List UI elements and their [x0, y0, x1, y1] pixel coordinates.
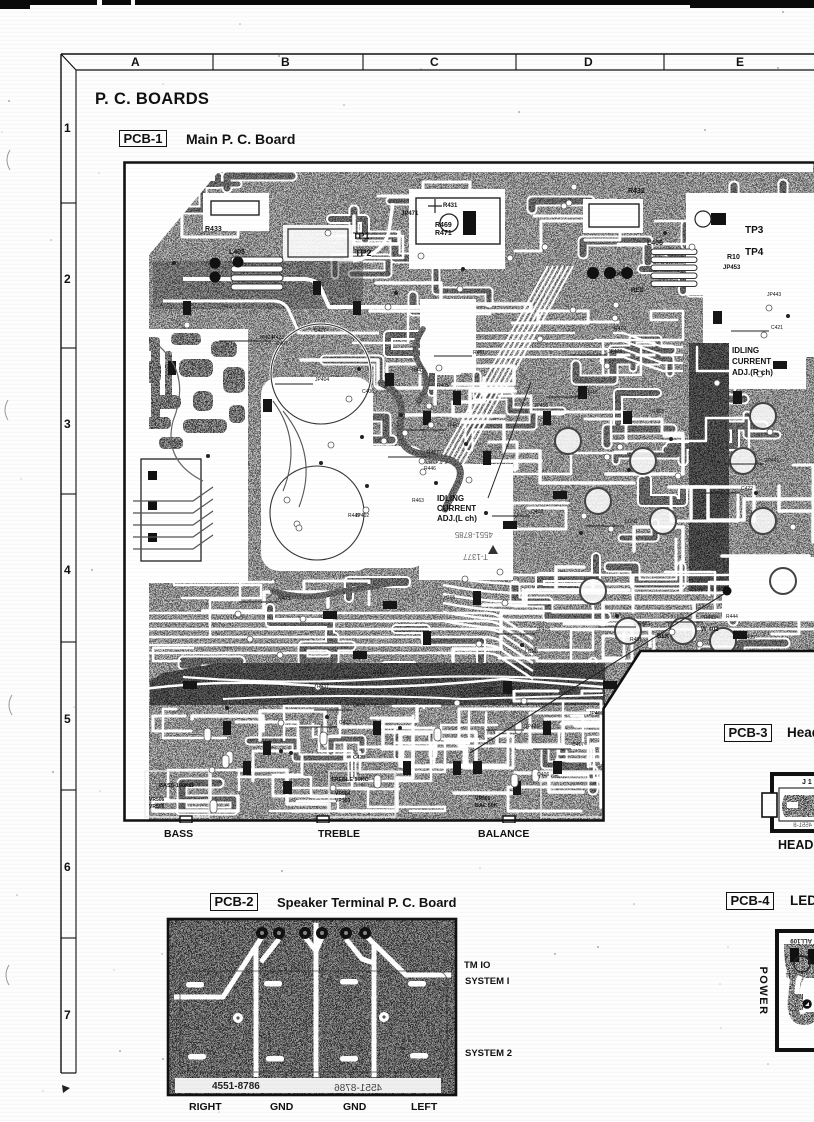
- svg-text:R471: R471: [435, 230, 452, 237]
- svg-text:TP4: TP4: [745, 247, 764, 258]
- trace channel left vertical: [254, 945, 259, 1077]
- white zone mid column: [420, 299, 476, 373]
- channels through dark band: [143, 679, 603, 689]
- svg-text:IDLING: IDLING: [437, 494, 464, 503]
- svg-text:JP404: JP404: [315, 377, 329, 383]
- svg-text:C421: C421: [771, 325, 783, 331]
- frame header bottom line: [76, 69, 814, 71]
- via dots: [206, 454, 210, 458]
- row number 4: [64, 563, 71, 577]
- svg-text:ALL109: ALL109: [790, 937, 812, 943]
- thin traces left white zone: [133, 487, 213, 501]
- bottom white strip: [175, 1078, 441, 1093]
- frame top line: [61, 53, 814, 55]
- svg-text:R432: R432: [628, 188, 645, 195]
- capacitor circle: [794, 956, 810, 972]
- LED dark circle: [802, 999, 812, 1009]
- frame left inner line: [75, 70, 77, 1073]
- top band channel 3: [353, 203, 393, 261]
- top band channel 2: [163, 301, 379, 333]
- label HEADP: [778, 838, 814, 852]
- svg-text:TP2: TP2: [355, 248, 372, 258]
- connector tab BASS: [180, 816, 192, 823]
- transistor circles: [555, 428, 581, 454]
- wire traces (white channels): [182, 201, 238, 237]
- component bodies: [263, 399, 272, 412]
- svg-text:C423: C423: [339, 720, 351, 726]
- row number 6: [64, 860, 71, 874]
- svg-text:T-1377: T-1377: [463, 552, 488, 561]
- PCB-3 title: [787, 725, 814, 740]
- PCB-1 copper pour: [124, 162, 814, 822]
- pot outline BASS: [145, 771, 209, 817]
- svg-text:LCN7: LCN7: [625, 519, 638, 525]
- svg-text:R417: R417: [427, 450, 439, 456]
- svg-text:R431: R431: [443, 203, 458, 209]
- svg-text:R446: R446: [424, 466, 436, 472]
- white zone center circles: [261, 377, 373, 571]
- left margin re-cover: [125, 163, 149, 820]
- gray island: [793, 994, 803, 1010]
- LED board copper blob: [784, 944, 814, 1025]
- top black bar: [0, 0, 814, 5]
- mirrored stamp pcb3: [793, 823, 812, 829]
- svg-text:JP443: JP443: [767, 292, 781, 298]
- row number 1: [64, 121, 71, 135]
- mirrored stamp 4551-8785: [454, 530, 493, 539]
- pot outline BALANCE: [541, 771, 603, 817]
- svg-text:R479: R479: [614, 326, 626, 332]
- svg-text:4551-8786: 4551-8786: [334, 1083, 382, 1094]
- grid letter D: [584, 55, 593, 69]
- corner mark bottom-left: [62, 1085, 70, 1093]
- terminal screws: [256, 927, 268, 939]
- label LEFT: [411, 1101, 437, 1113]
- svg-text:R403: R403: [278, 596, 290, 602]
- white wedge top-left: [126, 164, 225, 255]
- PCB-3 board body: [772, 774, 814, 831]
- white zone comp box B2: [203, 193, 269, 231]
- grid letter B: [281, 55, 290, 69]
- grid letter A: [131, 55, 140, 69]
- dark trace snake left: [273, 583, 393, 597]
- LCN black dots: [210, 258, 221, 269]
- svg-text:4551-8: 4551-8: [793, 823, 812, 829]
- trace bundle top-mid: [423, 333, 683, 347]
- connector tab TREBLE: [317, 816, 329, 823]
- pot outline TREBLE: [329, 771, 395, 817]
- dark snake traces: [163, 176, 810, 811]
- svg-text:LCN8: LCN8: [525, 649, 538, 655]
- frame corner bevel: [61, 54, 76, 70]
- white zone left-middle: [126, 329, 248, 583]
- connector tab: [762, 793, 777, 817]
- label TREBLE: [318, 828, 360, 840]
- label SYSTEM I: [465, 976, 509, 987]
- dark patch top-left: [153, 261, 363, 309]
- svg-text:VR501: VR501: [475, 796, 491, 802]
- white zone center lower: [263, 446, 425, 568]
- white zone D: [409, 189, 505, 269]
- right edge component: [808, 949, 814, 964]
- label RIGHT: [189, 1101, 222, 1113]
- svg-text:CURRENT: CURRENT: [732, 357, 771, 366]
- PCB-4 label box: [726, 892, 774, 910]
- svg-text:R444: R444: [726, 614, 738, 620]
- svg-text:L405: L405: [229, 249, 245, 256]
- svg-text:R483: R483: [623, 721, 635, 727]
- dark trace snake center: [273, 329, 460, 597]
- svg-text:R10: R10: [727, 254, 740, 261]
- svg-text:JP455: JP455: [534, 403, 548, 409]
- trace stub mid-right: [316, 937, 322, 951]
- title: [95, 90, 209, 109]
- PCB-2 title: [277, 895, 456, 910]
- svg-text:C407: C407: [276, 341, 288, 347]
- svg-text:TP1: TP1: [353, 231, 370, 241]
- PCB-3 label box: [724, 724, 772, 742]
- L406 coil: [651, 249, 697, 255]
- transistor JL801 R: [711, 213, 726, 225]
- svg-text:JP421: JP421: [525, 724, 539, 730]
- pour islands in left white zone: [137, 333, 245, 449]
- board white margin left: [125, 163, 149, 820]
- top band channel 1: [183, 279, 423, 307]
- svg-text:R487: R487: [484, 687, 496, 693]
- svg-text:R435: R435: [743, 635, 755, 641]
- label TM IO: [464, 960, 490, 971]
- column ticks: [212, 54, 214, 70]
- LCN dots right: [587, 267, 599, 279]
- PCB-1 board outline: [125, 163, 814, 821]
- white zone right-mid: [722, 557, 814, 621]
- trace stub left pair: [261, 939, 279, 962]
- trace bundle mid-right: [443, 567, 814, 575]
- small ovals bottom sections: [320, 732, 327, 745]
- svg-text:RED: RED: [631, 288, 644, 294]
- svg-text:VR504: VR504: [335, 791, 351, 797]
- svg-text:BLK: BLK: [609, 272, 622, 278]
- svg-text:TP3: TP3: [745, 225, 764, 236]
- svg-text:C417: C417: [572, 742, 584, 748]
- svg-text:4551-8786: 4551-8786: [212, 1081, 260, 1092]
- svg-text:C427: C427: [314, 328, 326, 334]
- svg-text:R451: R451: [630, 637, 642, 643]
- headphone jack body J1: [782, 795, 814, 817]
- svg-text:R463: R463: [412, 498, 424, 504]
- svg-text:JP471: JP471: [401, 211, 419, 217]
- mount hole right: [379, 1012, 389, 1022]
- diode body: [790, 948, 799, 962]
- punch marks left edge: [7, 150, 10, 170]
- svg-text:JP465: JP465: [589, 711, 603, 717]
- svg-text:VR505: VR505: [149, 804, 165, 810]
- svg-text:L406: L406: [647, 240, 663, 247]
- row number 5: [64, 712, 71, 726]
- grid letter C: [430, 55, 439, 69]
- frame bottom cap: [61, 1072, 76, 1074]
- svg-text:BAL 50K: BAL 50K: [475, 803, 498, 809]
- mirrored label ALL109: [790, 937, 812, 943]
- PCB-2 board body: [168, 919, 456, 1095]
- frame left outer line: [60, 54, 62, 1073]
- row number 7: [64, 1008, 71, 1022]
- label BASS: [164, 828, 193, 840]
- svg-text:D16: D16: [512, 686, 521, 692]
- svg-text:Q403: Q403: [531, 509, 543, 515]
- svg-text:C15: C15: [446, 595, 455, 601]
- label BALANCE: [478, 828, 529, 840]
- svg-text:4551-8785: 4551-8785: [454, 530, 493, 539]
- svg-text:R442: R442: [412, 368, 424, 374]
- white zone top-right TP3: [686, 193, 814, 295]
- svg-text:R449: R449: [348, 513, 360, 519]
- trace bundle bottom-left: [141, 613, 533, 639]
- svg-text:VR506: VR506: [149, 797, 165, 803]
- L405 coil: [231, 257, 283, 263]
- label GND 2: [343, 1101, 366, 1113]
- pour strip left vertical: [151, 337, 172, 421]
- dark vertical bar: [689, 343, 729, 591]
- svg-text:R433: R433: [205, 226, 222, 233]
- svg-text:BASS 100KΩ: BASS 100KΩ: [159, 783, 194, 789]
- white zone idling R backing: [724, 337, 806, 389]
- scan specks: [113, 969, 114, 970]
- row number 3: [64, 417, 71, 431]
- svg-text:W-402: W-402: [701, 627, 719, 633]
- TP box: [283, 225, 353, 261]
- dark trace snake center 2: [415, 329, 426, 401]
- big circle trace C6: [271, 324, 371, 424]
- component outline box E: [589, 204, 639, 227]
- trace stub mid-left: [305, 937, 316, 951]
- svg-text:C401: C401: [667, 656, 679, 662]
- label SYSTEM 2: [465, 1048, 512, 1059]
- PCB-1 label box: [119, 130, 167, 147]
- mirrored stamp T-1377: [463, 552, 488, 561]
- big circle trace 2: [270, 466, 364, 560]
- svg-text:Q405: Q405: [353, 703, 365, 709]
- mirrored stamp: [334, 1083, 382, 1094]
- row ticks: [61, 202, 76, 204]
- white zone E: [583, 199, 643, 233]
- svg-text:R453: R453: [652, 409, 664, 415]
- PCB-2 label box: [210, 893, 258, 911]
- trace channel right vertical: [372, 945, 377, 1077]
- connector outline left: [141, 459, 201, 561]
- svg-text:JP405: JP405: [536, 627, 550, 633]
- mount hole left: [233, 1013, 243, 1023]
- white zone idling L: [419, 464, 513, 580]
- trace diagonal left: [174, 937, 262, 997]
- leader line BLK wire: [470, 592, 727, 753]
- svg-text:TREBLE 50KC: TREBLE 50KC: [331, 777, 369, 783]
- label GND 1: [270, 1101, 293, 1113]
- svg-text:C429: C429: [353, 755, 365, 761]
- svg-text:R415: R415: [586, 390, 598, 396]
- diagonal channel bundle: [423, 266, 548, 491]
- row number 2: [64, 272, 71, 286]
- grid letter E: [736, 55, 744, 69]
- PCB-4 board body: [777, 931, 814, 1050]
- stamp triangle: [488, 545, 498, 554]
- svg-text:C11: C11: [785, 971, 796, 977]
- transistor JL801: [463, 211, 476, 235]
- svg-text:C406: C406: [362, 389, 374, 395]
- svg-text:C422: C422: [741, 486, 753, 492]
- inner outline: [779, 788, 814, 821]
- svg-text:R443: R443: [704, 615, 716, 621]
- connector tab BALANCE: [503, 816, 515, 823]
- svg-text:R483: R483: [638, 621, 650, 627]
- pad row top: [186, 982, 204, 988]
- white channel: [797, 976, 803, 1014]
- svg-text:C413: C413: [373, 670, 385, 676]
- svg-text:R427: R427: [635, 707, 647, 713]
- svg-text:JP453: JP453: [723, 265, 741, 271]
- component outline box D: [416, 198, 500, 244]
- component outline box B2: [211, 201, 259, 215]
- idling L pointer: [488, 382, 531, 498]
- svg-text:R405: R405: [437, 383, 449, 389]
- svg-text:IDLING: IDLING: [732, 346, 759, 355]
- svg-text:R469: R469: [435, 222, 452, 229]
- component outline rounded rect: [180, 971, 447, 1072]
- svg-text:J 1: J 1: [802, 779, 812, 786]
- svg-text:R461: R461: [473, 350, 485, 356]
- svg-text:Q406: Q406: [537, 772, 549, 778]
- trace channel mid vertical: [314, 923, 319, 1077]
- trace diagonal right: [365, 935, 451, 975]
- svg-text:ADJ.(R ch): ADJ.(R ch): [732, 368, 773, 377]
- label C11: [785, 971, 796, 977]
- jack slot: [787, 802, 798, 808]
- pad row bottom: [188, 1054, 206, 1060]
- trace stub right pair: [346, 939, 374, 963]
- PCB-4 title: [790, 893, 814, 908]
- svg-text:CURRENT: CURRENT: [437, 504, 476, 513]
- dark bottom band: [150, 663, 605, 705]
- svg-text:JP473: JP473: [608, 349, 622, 355]
- svg-text:ADJ.(L ch): ADJ.(L ch): [437, 514, 477, 523]
- solder pads: [209, 767, 215, 773]
- PCB-1 title: [186, 131, 295, 147]
- svg-text:R447: R447: [448, 423, 460, 429]
- label POWER: [757, 963, 769, 1019]
- svg-text:VR503: VR503: [335, 798, 351, 804]
- board white margin top: [125, 163, 813, 172]
- svg-text:JP441: JP441: [765, 458, 779, 464]
- svg-text:R437: R437: [317, 684, 329, 690]
